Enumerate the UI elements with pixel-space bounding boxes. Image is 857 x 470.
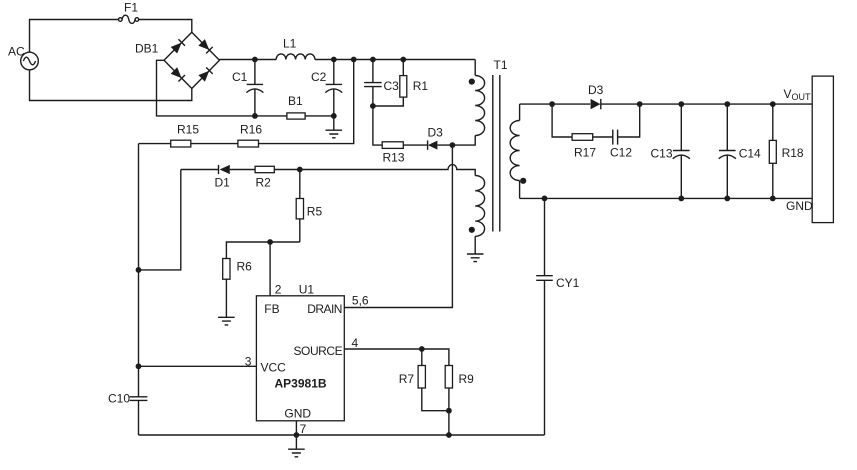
resistor R2 (255, 166, 274, 189)
node FB junction (267, 239, 273, 245)
node C14 bottom (724, 196, 730, 202)
node R2-R5 (297, 167, 303, 173)
node C13 top (678, 101, 684, 107)
wire AC bottom to bridge bottom (30, 70, 192, 101)
transformer T1 aux winding (469, 176, 485, 255)
svg-text:R15: R15 (177, 123, 199, 137)
svg-text:7: 7 (300, 422, 307, 436)
capacitor C12 (610, 130, 632, 160)
diode DB1 top-right (198, 39, 212, 53)
svg-text:D1: D1 (215, 176, 231, 190)
wire secondary top rail (520, 103, 813, 105)
svg-text:AP3981B: AP3981B (275, 377, 327, 391)
svg-text:5,6: 5,6 (352, 294, 369, 308)
svg-text:D3: D3 (588, 83, 604, 97)
diode D1 (215, 165, 231, 190)
transformer T1 core (493, 58, 508, 232)
svg-text:C14: C14 (739, 147, 761, 161)
capacitor C3 (364, 60, 399, 107)
svg-text:C10: C10 (108, 392, 130, 406)
resistor R18 (769, 104, 804, 198)
diode DB1 bottom-left (171, 67, 185, 81)
svg-text:R6: R6 (237, 260, 253, 274)
node snubber left (549, 101, 555, 107)
svg-text:D3: D3 (428, 126, 444, 140)
wire D1 line with hop to aux winding (181, 165, 475, 176)
svg-text:2: 2 (275, 283, 282, 297)
node R18 bottom (770, 196, 776, 202)
svg-text:R13: R13 (383, 151, 405, 165)
svg-text:R18: R18 (782, 146, 804, 160)
node clamp-drain-primary (450, 142, 456, 148)
resistor R9 (445, 366, 474, 389)
diode DB1 top-left (171, 39, 185, 53)
polarity dot secondary (520, 178, 526, 184)
wire clamp down (373, 106, 453, 145)
node CY1 top (542, 196, 548, 202)
capacitor CY1 (536, 198, 579, 435)
resistor B1 (287, 94, 305, 119)
node R9 bottom (446, 408, 452, 414)
wire VCC line (139, 365, 257, 367)
node rail-R16 (351, 57, 357, 63)
resistor R7 (399, 366, 426, 389)
wire node to primary bottom (452, 136, 475, 146)
fuse F1 (119, 1, 139, 24)
svg-text:DRAIN: DRAIN (307, 302, 342, 316)
svg-text:C1: C1 (232, 70, 248, 84)
resistor R17 (572, 134, 596, 160)
svg-text:R9: R9 (459, 372, 475, 386)
svg-text:4: 4 (352, 336, 359, 350)
diode D3 output (588, 83, 604, 109)
svg-text:VCC: VCC (261, 361, 287, 375)
resistor R5 (296, 170, 322, 243)
wire drain vertical (344, 145, 452, 307)
node R7 top (419, 346, 425, 352)
node snubber right (637, 101, 643, 107)
polarity dot primary (469, 79, 475, 85)
resistor R15 (171, 123, 200, 148)
node C3 top (370, 57, 376, 63)
bridge rectifier DB1 (135, 32, 220, 88)
wire SOURCE to R7 R9 (344, 349, 449, 435)
svg-text:T1: T1 (494, 58, 508, 72)
wire snubber branch (552, 104, 640, 137)
svg-text:CY1: CY1 (556, 276, 580, 290)
wire R15 R16 line (139, 60, 354, 144)
capacitor C2 (311, 60, 342, 116)
resistor R13 (382, 142, 405, 165)
transformer T1 primary winding (469, 60, 485, 136)
inductor L1 (276, 37, 315, 60)
svg-text:R5: R5 (307, 205, 323, 219)
svg-text:L1: L1 (283, 37, 297, 51)
node C1 top (252, 57, 258, 63)
svg-text:GND: GND (284, 407, 311, 421)
ground under U1 (288, 449, 305, 457)
svg-text:F1: F1 (124, 1, 138, 15)
wire D1 return to left rail (139, 170, 181, 270)
node C14 top (724, 101, 730, 107)
AC source V1 (8, 45, 38, 70)
svg-text:GND: GND (786, 199, 813, 213)
svg-text:AC: AC (8, 45, 25, 59)
node GND pin on rail (294, 432, 300, 438)
svg-text:C2: C2 (311, 70, 327, 84)
svg-text:R17: R17 (574, 146, 596, 160)
ground under C2 (326, 116, 343, 138)
svg-text:R16: R16 (240, 123, 262, 137)
svg-text:U1: U1 (299, 283, 315, 297)
svg-text:DB1: DB1 (135, 42, 159, 56)
node C13 bottom (678, 196, 684, 202)
svg-text:FB: FB (264, 302, 279, 316)
capacitor C14 (719, 104, 761, 198)
diode D3 clamp (428, 126, 444, 150)
node R18 top (770, 101, 776, 107)
wire bottom rail (139, 434, 545, 436)
op IC U1 AP3981B (245, 283, 369, 437)
wire R5 bottom to R6 and FB (226, 242, 299, 317)
wire left vertical rail (138, 144, 140, 435)
node C3-R1 bottom (370, 103, 376, 109)
svg-text:SOURCE: SOURCE (294, 344, 343, 358)
capacitor C10 (108, 392, 147, 406)
node C1 bottom (252, 113, 258, 119)
wire secondary bottom rail (520, 197, 813, 199)
svg-text:R7: R7 (399, 372, 415, 386)
resistor R1 (373, 60, 428, 107)
resistor R6 (223, 259, 252, 280)
node VCC left (136, 363, 142, 369)
node C2 bottom (331, 113, 337, 119)
capacitor C1 (232, 60, 263, 116)
node R9 rail (446, 432, 452, 438)
node C2 top (331, 57, 337, 63)
wire AC top to fuse to bridge (30, 20, 192, 53)
polarity dot aux (469, 227, 475, 233)
transformer T1 secondary winding (510, 104, 526, 198)
wire GND pin (295, 421, 297, 449)
svg-text:R2: R2 (256, 176, 272, 190)
output connector J1 (812, 76, 833, 223)
wire bridge minus rail (157, 60, 334, 116)
capacitor C13 (651, 104, 690, 198)
resistor R16 (238, 123, 262, 148)
diode DB1 bottom-right (198, 67, 212, 81)
ground under aux winding (467, 254, 484, 262)
node left rail D1 return (136, 267, 142, 273)
svg-text:C3: C3 (384, 79, 400, 93)
svg-text:C12: C12 (610, 146, 632, 160)
ground under R6 (218, 317, 235, 325)
node R1 top (400, 57, 406, 63)
svg-text:C13: C13 (651, 147, 673, 161)
svg-text:B1: B1 (288, 94, 303, 108)
svg-text:R1: R1 (413, 79, 429, 93)
wire bridge plus rail (220, 59, 476, 61)
